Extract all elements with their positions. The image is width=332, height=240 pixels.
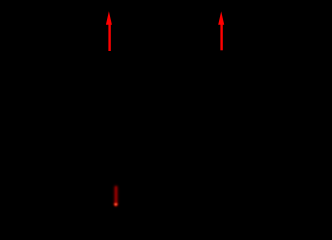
current arrow I1 (red, pointing up) xyxy=(106,11,112,51)
current particle dot on wire W1 xyxy=(114,202,118,206)
current arrow I2 (red, pointing up) xyxy=(218,11,224,50)
wire W1 (glowing dark red vertical segment) xyxy=(114,187,117,204)
